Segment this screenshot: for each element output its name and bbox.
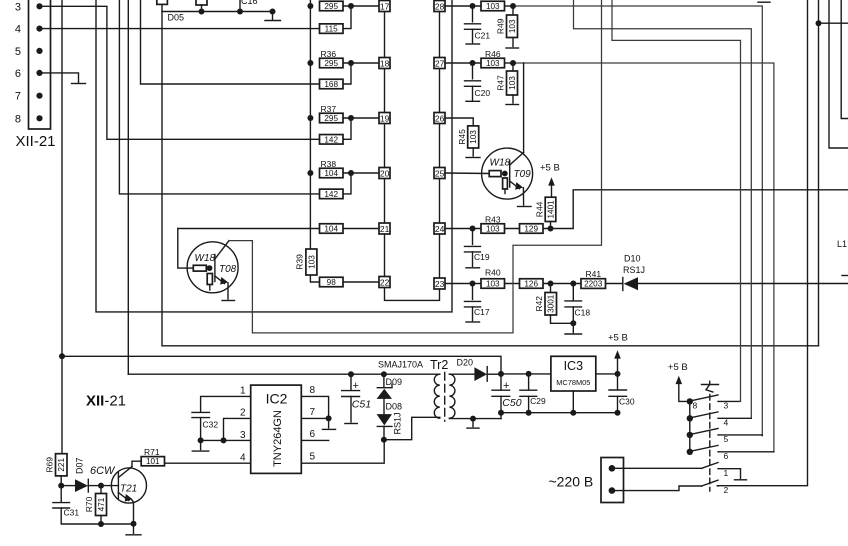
resistor 129 — [520, 224, 544, 234]
wire vertical x62 top to R69 — [61, 0, 63, 454]
switch contact 3 — [692, 395, 719, 401]
svg-text:C31: C31 — [64, 508, 80, 518]
wire +5V rail from D05 down and across — [162, 4, 819, 346]
node secondary gnd — [470, 416, 476, 422]
wire branch y23 to edge — [819, 22, 848, 24]
svg-text:SMAJ170A: SMAJ170A — [378, 360, 423, 370]
pin column line 17-22 — [384, 0, 386, 282]
wire L1 stub (right edge) — [842, 275, 848, 277]
wire row23 net — [445, 283, 481, 285]
svg-text:D09: D09 — [386, 377, 403, 387]
svg-text:R38: R38 — [321, 159, 337, 169]
svg-text:103: 103 — [486, 2, 500, 11]
ground (pin6) — [72, 83, 86, 85]
capacitor C32 — [192, 412, 218, 440]
node C18/R42 gnd — [570, 320, 576, 326]
resistor 98 — [320, 277, 344, 287]
capacitor C30 — [609, 374, 635, 413]
wire row228 from T08 base riser — [178, 228, 320, 230]
svg-text:104: 104 — [324, 169, 338, 178]
ground (top bus) — [272, 12, 274, 21]
wire T08 base riser — [178, 229, 194, 269]
pin box 26 — [434, 113, 445, 124]
svg-text:R45: R45 — [457, 129, 467, 145]
wire x829 corner right — [829, 0, 848, 148]
wire T09 collector — [523, 63, 525, 153]
capacitor C51 (+) — [342, 374, 371, 423]
wire U-loop x96 y312 x452 — [96, 0, 452, 312]
svg-text:C20: C20 — [475, 88, 491, 98]
wire row28 to switch5 (long) — [513, 6, 762, 436]
svg-text:Tr2: Tr2 — [430, 358, 448, 372]
wire row25 to T09 base — [445, 172, 489, 175]
svg-text:5: 5 — [310, 451, 316, 462]
switch contact 2 — [702, 480, 718, 486]
wire top gnd bus y11.5 — [201, 5, 203, 12]
svg-text:D07: D07 — [75, 458, 85, 475]
svg-text:R43: R43 — [485, 214, 501, 224]
svg-text:+5 В: +5 В — [540, 162, 560, 173]
svg-text:L1: L1 — [837, 239, 847, 249]
ground (pins 7,8) — [323, 428, 336, 430]
resistor 142 — [320, 135, 344, 145]
pin box 19 — [379, 113, 390, 124]
pin box 23 — [434, 278, 445, 289]
svg-text:C21: C21 — [475, 31, 491, 41]
wire T21 base — [101, 485, 118, 487]
svg-text:8: 8 — [15, 113, 21, 125]
svg-text:98: 98 — [327, 278, 337, 287]
node — [237, 9, 243, 15]
svg-text:2: 2 — [724, 485, 729, 495]
connector ~220 B — [549, 458, 624, 503]
svg-text:1: 1 — [724, 468, 729, 478]
svg-text:25: 25 — [435, 168, 445, 178]
svg-text:C29: C29 — [530, 396, 546, 406]
svg-text:2203: 2203 — [584, 280, 603, 289]
switch contact 6 — [692, 445, 719, 451]
svg-text:24: 24 — [435, 224, 445, 234]
svg-text:R36: R36 — [321, 49, 337, 59]
svg-text:C17: C17 — [474, 307, 490, 317]
ground (secondary) — [467, 427, 479, 429]
transistor T08 (W18) — [187, 241, 238, 293]
node dots gnd bus — [498, 410, 504, 416]
wire pair connectors x351 — [343, 6, 351, 29]
svg-text:8: 8 — [693, 401, 698, 411]
wire x128 to bottom IC2 row — [127, 0, 129, 374]
switch actuator symbol — [702, 381, 719, 392]
svg-text:6: 6 — [724, 451, 729, 461]
wire switch3 corner (already drawn riser) — [740, 400, 741, 402]
svg-text:MC78M05: MC78M05 — [556, 378, 590, 387]
svg-text:17: 17 — [380, 1, 390, 11]
svg-text:XII-21: XII-21 — [16, 133, 56, 150]
svg-text:3001: 3001 — [547, 294, 556, 313]
wire pin3 to row 142a — [40, 6, 320, 139]
wire 220 pin2 to switch contact 2 — [612, 486, 702, 491]
pin box 27 — [434, 58, 445, 69]
svg-text:5: 5 — [15, 46, 21, 58]
svg-text:129: 129 — [524, 225, 538, 234]
node R70 bottom — [98, 521, 104, 527]
svg-text:R40: R40 — [485, 267, 501, 277]
transformer Tr2 — [430, 358, 455, 421]
pin column line 23-28 — [439, 0, 441, 284]
wire row26 to R45 — [445, 118, 473, 126]
wire y356 net (x62 to D20 node) — [62, 356, 501, 374]
ground (T09 emitter) — [518, 206, 532, 208]
svg-text:1: 1 — [240, 386, 246, 397]
resistor 104b — [320, 224, 344, 234]
svg-text:R37: R37 — [321, 104, 337, 114]
svg-text:R49: R49 — [495, 18, 505, 34]
resistor bus x310 — [309, 0, 311, 249]
wire gnd bus y412.7 — [501, 412, 618, 414]
resistor R69 221 (vertical) — [61, 453, 62, 455]
wire pin4 to resistor 115 — [40, 28, 320, 30]
capacitor C31 — [53, 486, 134, 524]
ground (contact 1) — [735, 479, 747, 481]
svg-text:19: 19 — [380, 113, 390, 123]
capacitor C50 (+) — [492, 374, 522, 419]
svg-text:T09: T09 — [514, 169, 532, 180]
pin box 21 — [379, 223, 390, 234]
svg-text:103: 103 — [508, 19, 517, 33]
svg-text:103: 103 — [486, 225, 500, 234]
svg-text:C50: C50 — [502, 397, 521, 409]
svg-text:21: 21 — [380, 224, 390, 234]
pin box 25 — [434, 168, 445, 179]
svg-text:5: 5 — [724, 434, 729, 444]
ground (C32) — [192, 450, 209, 452]
svg-text:D08: D08 — [386, 402, 403, 412]
wire IC3 gnd pin — [572, 391, 574, 413]
capacitor C20 — [472, 63, 474, 79]
wire row27 net — [445, 62, 481, 64]
capacitor C18 — [572, 284, 574, 300]
svg-text:4: 4 — [240, 453, 246, 464]
node base — [98, 483, 104, 489]
svg-text:2: 2 — [240, 408, 246, 419]
svg-text:104: 104 — [324, 225, 338, 234]
wire row28 net — [445, 5, 481, 7]
svg-text:101: 101 — [146, 457, 160, 466]
svg-text:126: 126 — [524, 280, 538, 289]
capacitor C21 — [472, 6, 474, 22]
pin box 18 — [379, 58, 390, 69]
capacitor C29 — [520, 374, 546, 413]
svg-text:7: 7 — [310, 407, 316, 418]
pin box 24 — [434, 223, 445, 234]
svg-text:103: 103 — [508, 76, 517, 90]
resistor 126 — [520, 279, 544, 289]
connector XII-21 (left) — [15, 0, 56, 150]
svg-text:RS1J: RS1J — [623, 265, 645, 275]
wire x818 (+5V riser) — [818, 0, 820, 346]
wire T09 emitter to ground — [522, 188, 524, 205]
svg-text:3: 3 — [724, 401, 729, 411]
svg-text:TNY264GN: TNY264GN — [272, 410, 284, 467]
node C51 top — [348, 371, 354, 377]
node x62/y356 — [59, 353, 65, 359]
svg-text:4: 4 — [15, 24, 21, 36]
svg-text:R47: R47 — [495, 75, 505, 91]
node pin2/C32 — [221, 437, 227, 443]
svg-text:W18: W18 — [195, 253, 216, 264]
switch contact 1 — [702, 463, 718, 469]
node D09 top — [381, 371, 387, 377]
transistor T09 (W18) — [482, 148, 533, 199]
svg-text:XII-21: XII-21 — [86, 392, 126, 409]
wire rows to pin boxes 17-20 — [343, 5, 379, 7]
svg-text:6CW: 6CW — [90, 465, 116, 477]
svg-text:C32: C32 — [203, 420, 219, 430]
wire pin6 to ground — [40, 73, 79, 83]
svg-text:R70: R70 — [84, 496, 94, 512]
wire gray net x612 to switch3 — [612, 0, 741, 401]
wire y374 line (to Tr2 primary) — [128, 373, 440, 375]
wire x841 corner right — [841, 0, 848, 119]
transistor T21 — [111, 467, 146, 504]
wire secondary bottom — [449, 418, 501, 420]
resistor R42 3001 (vertical) — [550, 284, 552, 293]
ground (T08 emitter) — [222, 300, 235, 302]
node D20 out — [498, 371, 504, 377]
node — [270, 9, 276, 15]
wire IC3 out — [596, 373, 618, 375]
resistor R47 103 (vertical) — [512, 63, 514, 71]
node R69/D07/C31 — [58, 483, 64, 489]
svg-text:28: 28 — [435, 1, 445, 11]
svg-text:3: 3 — [15, 1, 21, 13]
node C29 top — [526, 371, 532, 377]
wire T08 emitter to ground — [227, 283, 229, 299]
pin box 28 — [434, 1, 445, 12]
wire drain net to Tr2 primary bottom — [384, 417, 440, 439]
svg-text:C18: C18 — [575, 308, 591, 318]
pin box 20 — [379, 168, 390, 179]
svg-text:221: 221 — [57, 458, 66, 472]
ground (top right partial) — [758, 1, 770, 3]
component box D05 (cut at top) — [157, 0, 168, 4]
svg-text:R44: R44 — [535, 201, 545, 217]
svg-text:C16: C16 — [241, 0, 258, 6]
ground (T21) — [126, 534, 141, 536]
switch link (dashed) — [709, 395, 711, 492]
svg-text:3: 3 — [240, 430, 246, 441]
svg-text:142: 142 — [324, 190, 338, 199]
node — [199, 9, 205, 15]
svg-text:103: 103 — [486, 59, 500, 68]
svg-text:C19: C19 — [474, 252, 490, 262]
svg-text:IC2: IC2 — [266, 391, 288, 407]
svg-text:27: 27 — [435, 58, 445, 68]
svg-text:103: 103 — [307, 255, 316, 269]
resistor R70 471 (vertical) — [100, 486, 102, 494]
svg-text:1401: 1401 — [546, 200, 555, 219]
node emitter — [131, 521, 137, 527]
resistor 142b — [320, 189, 344, 199]
wire 220 pin1 to switch contact 1 — [612, 467, 702, 469]
IC3 MC78M05 — [551, 356, 596, 391]
svg-text:D05: D05 — [168, 13, 185, 23]
svg-text:R42: R42 — [534, 296, 544, 312]
svg-text:~220 В: ~220 В — [549, 474, 594, 490]
svg-text:8: 8 — [310, 385, 316, 396]
wire x140 to row 168 — [141, 0, 320, 84]
svg-text:C30: C30 — [619, 396, 635, 406]
wire row27 to switch6 (long) — [513, 63, 774, 452]
svg-text:T21: T21 — [120, 484, 137, 495]
svg-text:295: 295 — [324, 114, 338, 123]
capacitor C17 — [472, 284, 474, 300]
svg-text:D10: D10 — [624, 253, 641, 263]
wire secondary out to IC3 — [501, 373, 551, 375]
resistor R49 103 (vertical) — [512, 6, 514, 15]
svg-text:20: 20 — [380, 168, 390, 178]
svg-text:R39: R39 — [294, 254, 304, 270]
wire T08 collector long net to top — [229, 0, 602, 333]
switch contact 5 — [692, 429, 719, 435]
svg-text:RS1J: RS1J — [393, 412, 403, 434]
capacitor C19 — [472, 229, 474, 245]
svg-text:D20: D20 — [457, 358, 474, 368]
svg-text:+5 В: +5 В — [668, 362, 688, 373]
node bus dots — [307, 3, 313, 9]
svg-text:6: 6 — [15, 68, 21, 80]
node D08 bottom — [381, 437, 387, 443]
svg-text:168: 168 — [324, 80, 338, 89]
svg-text:6: 6 — [310, 429, 316, 440]
node pins7+8 — [326, 415, 332, 421]
component box (cut at top, D06) — [196, 0, 207, 5]
resistor R35 295 — [320, 1, 344, 11]
svg-text:26: 26 — [435, 113, 445, 123]
svg-text:471: 471 — [97, 497, 106, 511]
svg-text:IC3: IC3 — [564, 359, 584, 373]
svg-text:R69: R69 — [44, 457, 54, 473]
wire row24 net — [445, 228, 481, 230]
svg-text:103: 103 — [486, 280, 500, 289]
svg-text:18: 18 — [380, 58, 390, 68]
svg-text:103: 103 — [469, 130, 478, 144]
svg-text:R46: R46 — [485, 49, 501, 59]
wire x807 to switch2 lead — [717, 0, 807, 486]
node x818/y23 — [816, 20, 822, 26]
svg-text:295: 295 — [324, 2, 338, 11]
node dots rows — [470, 3, 476, 9]
resistor 168 — [320, 79, 344, 89]
svg-text:22: 22 — [380, 277, 390, 287]
svg-text:115: 115 — [325, 25, 338, 34]
pin box 22 — [379, 277, 390, 288]
node right dots — [348, 3, 354, 9]
capacitor C16 lead (cut at top) — [239, 0, 241, 12]
svg-text:C51: C51 — [352, 398, 371, 410]
svg-text:+5 В: +5 В — [608, 333, 628, 344]
wire x119 to row 142b — [119, 0, 319, 194]
svg-text:R71: R71 — [144, 447, 160, 457]
switch common bus — [689, 401, 691, 451]
resistor 115 — [320, 24, 344, 33]
svg-text:142: 142 — [324, 135, 338, 144]
svg-text:4: 4 — [724, 417, 729, 427]
wire gray net x573 to switch4 — [574, 0, 752, 418]
wire T21 emitter — [132, 500, 134, 524]
svg-text:7: 7 — [15, 91, 21, 103]
pin box 17 — [379, 1, 390, 12]
wire U below pins 22-23 — [385, 288, 440, 301]
svg-text:295: 295 — [324, 59, 338, 68]
resistor 103 (row28) — [481, 1, 505, 11]
svg-text:23: 23 — [435, 279, 445, 289]
svg-text:T08: T08 — [219, 264, 237, 275]
svg-text:R41: R41 — [586, 269, 602, 279]
op-amp IC2 TNY264GN — [251, 385, 302, 473]
svg-text:W18: W18 — [490, 157, 511, 168]
switch contact 4 — [692, 412, 719, 418]
wire R71 to T21 collector — [132, 461, 141, 466]
